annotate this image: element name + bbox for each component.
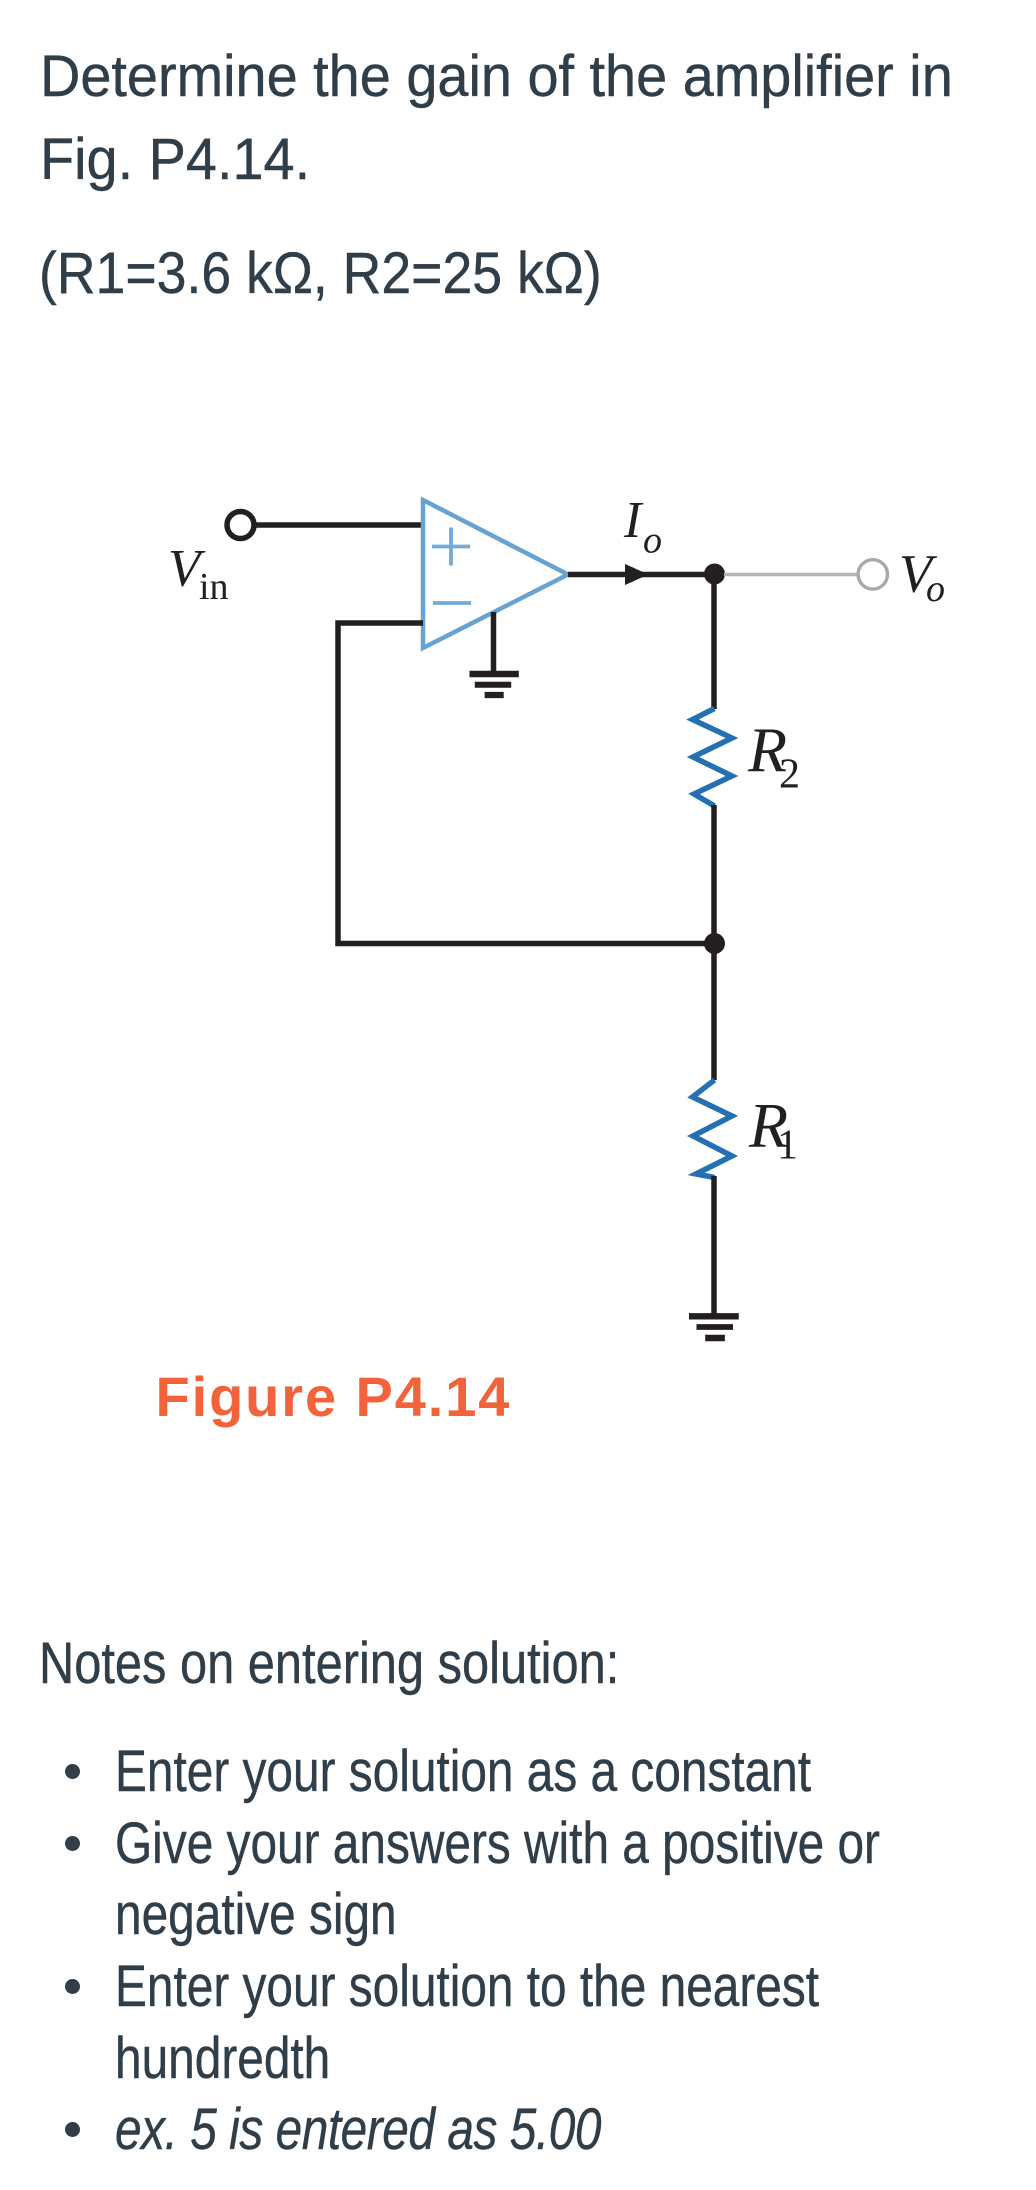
terminal Vin	[227, 512, 254, 539]
op-amp U1	[423, 500, 568, 648]
svg-text:2: 2	[779, 752, 800, 798]
label Vo	[899, 544, 945, 611]
wire node A to Vo terminal	[724, 573, 857, 576]
given values line	[39, 233, 602, 315]
wire feedback from - input to node B	[338, 623, 714, 944]
svg-text:in: in	[199, 566, 229, 608]
bullet dot 2	[65, 1836, 80, 1851]
label Vin	[168, 540, 229, 609]
notes list text	[115, 1736, 880, 2166]
bullet dot 3	[65, 1979, 80, 1994]
wire node A to R2	[711, 575, 717, 710]
problem statement title	[40, 35, 953, 201]
pin + (noninverting)	[432, 528, 470, 566]
terminal Vo	[858, 560, 887, 589]
svg-text:1: 1	[777, 1123, 798, 1169]
svg-text:o: o	[643, 520, 662, 562]
wire op-amp output	[568, 572, 714, 578]
label R2	[747, 715, 800, 798]
node A (output node)	[704, 564, 725, 585]
wire R2 to node B	[711, 805, 717, 944]
arrowhead Io	[625, 564, 649, 585]
bullet dot 4	[65, 2122, 80, 2137]
pin - (inverting)	[433, 601, 471, 605]
figure caption	[156, 1369, 512, 1425]
ground at op-amp	[470, 612, 519, 695]
resistor R2	[693, 709, 733, 807]
bullet dot 1	[65, 1764, 80, 1779]
svg-text:o: o	[926, 568, 945, 610]
wire R1 to ground	[711, 1176, 717, 1314]
ground at R1	[689, 1316, 739, 1338]
wire node B to R1	[711, 944, 717, 1081]
resistor R1	[693, 1080, 733, 1178]
node B (feedback node)	[704, 933, 725, 954]
svg-text:I: I	[623, 492, 644, 549]
label R1	[748, 1090, 798, 1169]
notes heading	[39, 1628, 619, 1700]
label Io	[623, 492, 662, 562]
wire Vin to op-amp + input	[254, 522, 423, 528]
